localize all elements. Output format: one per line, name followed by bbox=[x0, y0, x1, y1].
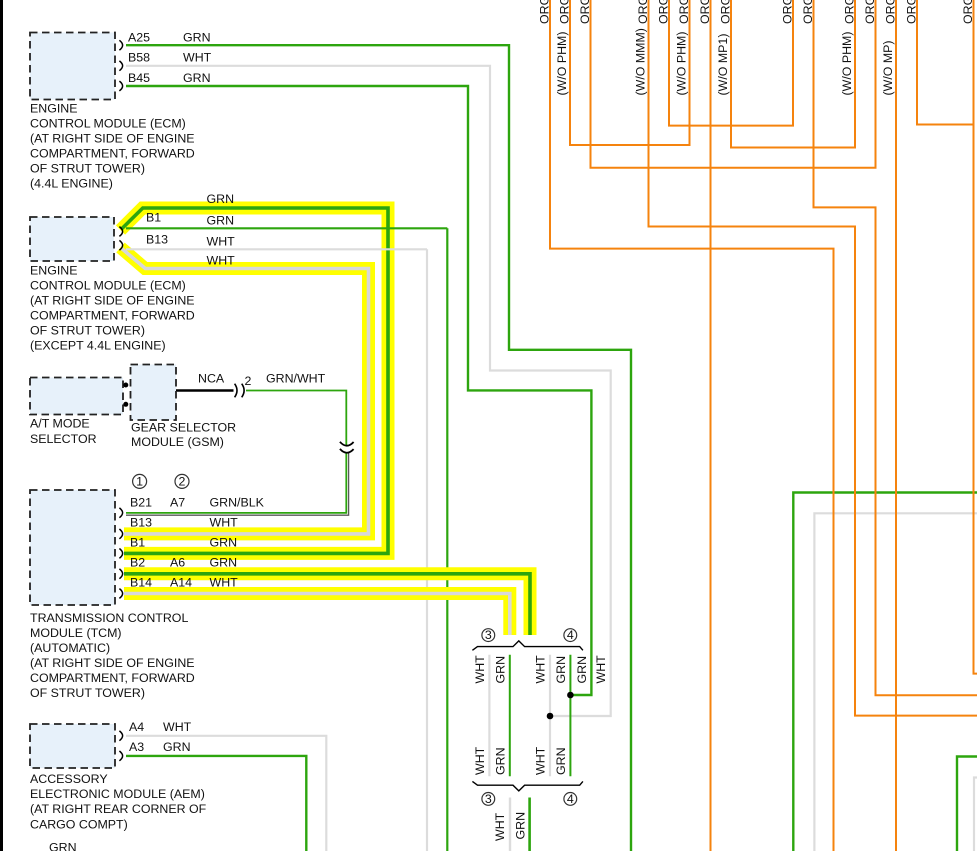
svg-text:WHT: WHT bbox=[210, 516, 239, 530]
svg-text:2: 2 bbox=[245, 374, 252, 388]
svg-text:WHT: WHT bbox=[207, 254, 236, 268]
svg-text:A6: A6 bbox=[170, 556, 185, 570]
pin B1 arc TCM bbox=[119, 549, 122, 559]
wire WHT ECM1 B58 long path to conn 4 bbox=[126, 66, 611, 716]
wire WHT conn 3 segment bbox=[488, 655, 490, 776]
svg-text:WHT: WHT bbox=[534, 655, 548, 684]
svg-text:GRN: GRN bbox=[207, 192, 235, 206]
wire WHT conn 4 segment bbox=[549, 655, 551, 776]
GSM terminal dots bbox=[123, 383, 128, 388]
pin B2 arc TCM bbox=[119, 569, 122, 579]
svg-text:(4.4L ENGINE): (4.4L ENGINE) bbox=[30, 177, 113, 191]
svg-text:B1: B1 bbox=[146, 211, 161, 225]
MODULE BOXES bbox=[30, 33, 176, 769]
svg-text:(AT RIGHT SIDE OF ENGINE: (AT RIGHT SIDE OF ENGINE bbox=[30, 656, 195, 670]
ROTATED ORG WIRE LABELS bbox=[538, 0, 976, 96]
pin B45 arc bbox=[119, 81, 122, 91]
pin B13 arc ECM2 bbox=[119, 240, 122, 250]
svg-text:GEAR SELECTOR: GEAR SELECTOR bbox=[131, 421, 236, 435]
svg-text:ORG: ORG bbox=[781, 0, 795, 24]
wire WHT right side lower x974 bbox=[974, 778, 977, 851]
svg-text:1: 1 bbox=[136, 474, 143, 488]
svg-text:ORG: ORG bbox=[698, 0, 712, 24]
highlight band TCM B14 WHT bbox=[124, 594, 510, 636]
highlight band TCM B2 GRN bbox=[124, 574, 530, 635]
svg-text:ACCESSORY: ACCESSORY bbox=[30, 772, 108, 786]
svg-text:B58: B58 bbox=[128, 51, 150, 65]
svg-text:GRN/WHT: GRN/WHT bbox=[266, 372, 326, 386]
node circle 3 bottom bbox=[482, 793, 495, 806]
module ECM 4.4L box bbox=[30, 33, 115, 100]
svg-text:MODULE (TCM): MODULE (TCM) bbox=[30, 626, 122, 640]
svg-text:GRN: GRN bbox=[183, 71, 211, 85]
highlight band ECM2 B1 GRN to TCM B1 bbox=[121, 208, 389, 553]
wire WHT AEM A4 bbox=[126, 736, 326, 851]
svg-text:ORG: ORG bbox=[538, 0, 552, 24]
svg-text:ENGINE: ENGINE bbox=[30, 264, 78, 278]
node circle 4 bottom bbox=[564, 793, 577, 806]
wire ORG x917 joins x973.5 bbox=[917, 0, 974, 125]
svg-text:WHT: WHT bbox=[183, 51, 212, 65]
pin B13 arc TCM bbox=[119, 529, 122, 539]
pin A3 arc AEM bbox=[119, 751, 122, 761]
svg-text:(AT RIGHT SIDE OF ENGINE: (AT RIGHT SIDE OF ENGINE bbox=[30, 132, 195, 146]
svg-text:ORG: ORG bbox=[801, 0, 815, 24]
svg-text:TRANSMISSION CONTROL: TRANSMISSION CONTROL bbox=[30, 611, 188, 625]
svg-text:WHT: WHT bbox=[210, 576, 239, 590]
wire ORG x710.5 full height bbox=[710, 0, 712, 851]
svg-text:GRN: GRN bbox=[493, 656, 507, 684]
svg-text:A4: A4 bbox=[129, 720, 144, 734]
wire WHT below bottom splice bbox=[509, 798, 511, 851]
svg-text:A/T MODE: A/T MODE bbox=[30, 417, 90, 431]
svg-text:(W/O PHM): (W/O PHM) bbox=[675, 31, 689, 95]
svg-text:B2: B2 bbox=[130, 556, 145, 570]
svg-text:ORG: ORG bbox=[719, 0, 733, 24]
wire GRN conn 4 segment bbox=[569, 655, 571, 776]
svg-text:WHT: WHT bbox=[493, 812, 507, 841]
wire GRN ECM1 A25 long path to bottom bbox=[126, 45, 631, 851]
svg-text:GRN: GRN bbox=[210, 556, 238, 570]
svg-text:B14: B14 bbox=[130, 576, 152, 590]
svg-text:NCA: NCA bbox=[198, 372, 225, 386]
svg-text:ORG: ORG bbox=[961, 0, 975, 24]
svg-text:GRN: GRN bbox=[163, 740, 191, 754]
wire GRN conn 3 segment bbox=[509, 655, 511, 776]
svg-text:(W/O PHM): (W/O PHM) bbox=[555, 31, 569, 95]
svg-text:GRN/BLK: GRN/BLK bbox=[210, 496, 265, 510]
svg-text:ORG: ORG bbox=[843, 0, 857, 24]
wire GRN ECM1 B45 long path to conn 4 bbox=[126, 86, 591, 695]
svg-text:ORG: ORG bbox=[884, 0, 898, 24]
wire WHT highlighted TCM B14 down to connector bbox=[124, 594, 510, 636]
wire ORG x669 U-link to x793 bbox=[669, 0, 793, 126]
svg-text:A3: A3 bbox=[129, 740, 144, 754]
svg-text:OF STRUT TOWER): OF STRUT TOWER) bbox=[30, 162, 145, 176]
svg-text:GRN: GRN bbox=[210, 536, 238, 550]
svg-text:WHT: WHT bbox=[207, 235, 236, 249]
PIN ARCS bbox=[119, 40, 122, 761]
circled connector numbers bbox=[133, 474, 577, 805]
svg-text:GRN: GRN bbox=[554, 747, 568, 775]
svg-text:(W/O MP): (W/O MP) bbox=[881, 40, 895, 95]
svg-text:GRN: GRN bbox=[183, 30, 211, 44]
svg-text:(EXCEPT 4.4L ENGINE): (EXCEPT 4.4L ENGINE) bbox=[30, 339, 166, 353]
wire ORG x550 to x833 down bbox=[550, 0, 834, 851]
ROTATED CONNECTOR WIRE LABELS bbox=[473, 655, 608, 841]
svg-text:ORG: ORG bbox=[636, 0, 650, 24]
pin B1 arc ECM2 bbox=[119, 227, 122, 237]
svg-text:(AT RIGHT SIDE OF ENGINE: (AT RIGHT SIDE OF ENGINE bbox=[30, 294, 195, 308]
svg-text:B13: B13 bbox=[130, 516, 152, 530]
svg-text:GRN: GRN bbox=[513, 812, 527, 840]
svg-text:(W/O MP1): (W/O MP1) bbox=[716, 34, 730, 96]
wire GRN ECM2 B1 horizontal bbox=[126, 227, 447, 229]
pin B21 arc TCM bbox=[119, 508, 122, 518]
wire WHT right side upper x816 bbox=[814, 513, 977, 851]
svg-text:GRN: GRN bbox=[554, 656, 568, 684]
svg-text:CARGO COMPT): CARGO COMPT) bbox=[30, 818, 128, 832]
wire GRN highlighted TCM B2 down to connector bbox=[124, 574, 530, 635]
svg-text:GRN: GRN bbox=[49, 841, 77, 851]
svg-text:B21: B21 bbox=[130, 496, 152, 510]
svg-text:COMPARTMENT, FORWARD: COMPARTMENT, FORWARD bbox=[30, 309, 195, 323]
pin A25 arc bbox=[119, 40, 122, 50]
node circle 2 bbox=[175, 474, 189, 488]
svg-text:OF STRUT TOWER): OF STRUT TOWER) bbox=[30, 686, 145, 700]
svg-text:WHT: WHT bbox=[594, 655, 608, 684]
pin B14 arc TCM bbox=[119, 589, 122, 599]
splice brace top bbox=[472, 641, 583, 650]
svg-text:COMPARTMENT, FORWARD: COMPARTMENT, FORWARD bbox=[30, 147, 195, 161]
wire WHT ECM2 B13 horizontal bbox=[126, 248, 427, 250]
node circle 3 top bbox=[482, 629, 495, 642]
svg-text:ELECTRONIC MODULE (AEM): ELECTRONIC MODULE (AEM) bbox=[30, 787, 205, 801]
junction dot conn4 GRN bbox=[567, 692, 574, 699]
svg-text:B13: B13 bbox=[146, 233, 168, 247]
svg-text:OF STRUT TOWER): OF STRUT TOWER) bbox=[30, 324, 145, 338]
pin A4 arc AEM bbox=[119, 731, 122, 741]
svg-text:GRN: GRN bbox=[493, 747, 507, 775]
svg-text:2: 2 bbox=[179, 474, 186, 488]
svg-text:(W/O PHM): (W/O PHM) bbox=[840, 31, 854, 95]
wire NCA black from GSM bbox=[176, 389, 234, 392]
svg-text:WHT: WHT bbox=[163, 720, 192, 734]
highlight band ECM2 B13 WHT to TCM B13 bbox=[121, 248, 369, 534]
module ECM except-4.4L box bbox=[30, 217, 114, 261]
ORANGE WIRES bbox=[550, 0, 977, 851]
YELLOW HIGHLIGHT BANDS bbox=[121, 208, 531, 635]
svg-text:ORG: ORG bbox=[558, 0, 572, 24]
wire ORG (W/O MP1) x731 U-link to x855 upper bbox=[731, 0, 855, 148]
svg-text:GRN: GRN bbox=[575, 656, 589, 684]
svg-text:ORG: ORG bbox=[677, 0, 691, 24]
node circle 4 top bbox=[564, 629, 577, 642]
svg-text:WHT: WHT bbox=[473, 746, 487, 775]
svg-text:COMPARTMENT, FORWARD: COMPARTMENT, FORWARD bbox=[30, 671, 195, 685]
module TCM box bbox=[30, 490, 115, 605]
svg-text:CONTROL MODULE (ECM): CONTROL MODULE (ECM) bbox=[30, 117, 186, 131]
svg-text:ORG: ORG bbox=[657, 0, 671, 24]
junction dot conn4 WHT bbox=[547, 713, 554, 720]
inline connector 2 symbol bbox=[235, 384, 245, 398]
svg-text:MODULE (GSM): MODULE (GSM) bbox=[131, 435, 224, 449]
svg-text:ENGINE: ENGINE bbox=[30, 102, 78, 116]
module AEM box bbox=[30, 724, 115, 768]
svg-text:(W/O MMM): (W/O MMM) bbox=[634, 28, 648, 95]
wire GRN AEM A3 bbox=[126, 756, 306, 851]
svg-text:WHT: WHT bbox=[473, 655, 487, 684]
svg-text:B1: B1 bbox=[130, 536, 145, 550]
wire GRN/WHT from GSM connector bbox=[246, 391, 346, 447]
wire ORG x813.5 via x875.5 exits right y695.3 bbox=[814, 0, 977, 695]
wire ORG x973.5 exits right y673.6 bbox=[974, 0, 977, 674]
svg-text:(AUTOMATIC): (AUTOMATIC) bbox=[30, 641, 110, 655]
wire ORG x590.5 U-link to x875.5 bbox=[591, 0, 876, 168]
svg-text:4: 4 bbox=[567, 628, 574, 642]
wire break symbol on GSM wire bbox=[340, 442, 354, 453]
wire ORG (W/O MMM) x648.5 via x855 exits right y715.6 bbox=[649, 0, 977, 716]
wire GRN vertical x447 (ECM2 B1 circuit) bbox=[446, 228, 448, 851]
svg-text:A25: A25 bbox=[128, 30, 150, 44]
svg-text:A14: A14 bbox=[170, 576, 192, 590]
svg-text:3: 3 bbox=[485, 792, 492, 806]
svg-text:GRN: GRN bbox=[207, 214, 235, 228]
splice brace bottom bbox=[472, 781, 583, 791]
node circle 1 bbox=[133, 474, 147, 488]
svg-text:A7: A7 bbox=[170, 496, 185, 510]
wire GRN/BLK to TCM B21 bbox=[126, 453, 346, 513]
svg-text:WHT: WHT bbox=[534, 746, 548, 775]
wire GRN highlighted ECM2 B1 to TCM B1 bbox=[121, 208, 388, 553]
svg-text:ORG: ORG bbox=[905, 0, 919, 24]
svg-text:4: 4 bbox=[567, 792, 574, 806]
wire WHT highlighted ECM2 B13 to TCM B13 bbox=[121, 248, 369, 534]
svg-text:B45: B45 bbox=[128, 71, 150, 85]
module A/T mode selector box bbox=[30, 378, 123, 415]
svg-text:ORG: ORG bbox=[578, 0, 592, 24]
wire WHT vertical x427 (ECM2 B13 circuit) bbox=[426, 249, 428, 851]
module GSM box bbox=[131, 365, 177, 421]
wire ORG (W/O PHM) x570 U-link to x689.5 bbox=[570, 0, 690, 145]
svg-text:(AT RIGHT REAR CORNER OF: (AT RIGHT REAR CORNER OF bbox=[30, 802, 207, 816]
wire GRN below bottom splice bbox=[528, 798, 531, 851]
svg-text:CONTROL MODULE (ECM): CONTROL MODULE (ECM) bbox=[30, 279, 186, 293]
svg-text:SELECTOR: SELECTOR bbox=[30, 432, 97, 446]
wire GRN right side upper x793 bbox=[793, 493, 977, 851]
svg-text:ORG: ORG bbox=[863, 0, 877, 24]
wire GRN/BLK black tracer stripe bbox=[126, 453, 349, 516]
pin B58 arc bbox=[119, 61, 122, 71]
svg-text:3: 3 bbox=[485, 628, 492, 642]
wire ORG (W/O MP) x896 full height bbox=[895, 0, 897, 851]
wire GRN right side lower x957 bbox=[957, 757, 977, 851]
